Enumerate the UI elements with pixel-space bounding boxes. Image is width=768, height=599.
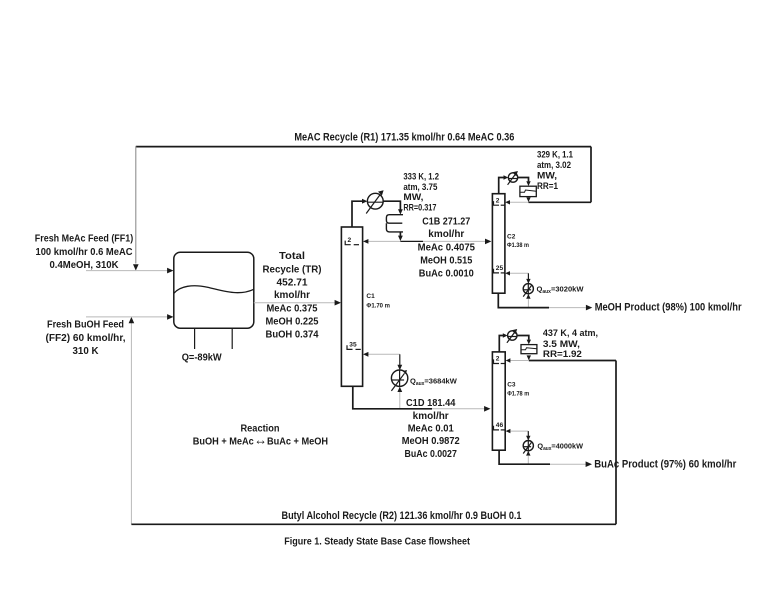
stream C2 bottoms light part [549,307,586,309]
svg-text:(FF2) 60 kmol/hr,: (FF2) 60 kmol/hr, [46,333,126,344]
svg-text:C1: C1 [366,293,375,300]
arrow C3 reflux into column [506,358,511,362]
C1 reboiler riser [399,354,401,366]
arrow FF1 into reactor [167,268,173,274]
stream R1 from C2 drum junction [529,201,592,203]
svg-text:2: 2 [496,197,500,204]
svg-text:BuAc Product (97%) 60 kmol/hr: BuAc Product (97%) 60 kmol/hr [594,459,736,471]
svg-text:MeOH Product (98%) 100 kmol/hr: MeOH Product (98%) 100 kmol/hr [595,302,742,314]
stream C3 bottoms dark part [499,450,550,464]
reactor left leg [194,328,196,349]
arrow into C1 reflux junction [398,236,403,241]
C1 vapor line [352,201,364,227]
reboiler C3 [523,441,533,454]
svg-text:Φ1.38 m: Φ1.38 m [507,242,529,249]
reboiler C2 [523,284,533,297]
stream FF2 fresh BuOH feed [86,316,169,318]
C1 reboiler return line [368,353,400,355]
svg-text:RR=1.92: RR=1.92 [543,349,582,359]
svg-text:kmol/hr: kmol/hr [428,229,464,240]
arrow C3 reboiler return into column [506,429,511,433]
reactor vessel [174,252,254,328]
svg-text:C3: C3 [507,382,516,389]
svg-text:310 K: 310 K [73,346,99,357]
svg-text:Φ1.70 m: Φ1.70 m [366,303,390,310]
C1 tray 35 marker [347,342,361,350]
svg-text:kmol/hr: kmol/hr [413,411,449,422]
svg-text:atm, 3.02: atm, 3.02 [537,160,571,170]
svg-text:Φ1.78 m: Φ1.78 m [507,390,529,397]
C1 drum outlet [399,232,401,236]
stream R1 top horizontal [136,146,591,148]
arrow C1B into C2 [485,239,491,245]
svg-text:0.4MeOH, 310K: 0.4MeOH, 310K [50,260,119,271]
svg-text:100 kmol/hr 0.6 MeAC: 100 kmol/hr 0.6 MeAC [36,247,133,258]
svg-text:Figure 1. Steady State Base Ca: Figure 1. Steady State Base Case flowshe… [284,537,470,548]
stream TR reactor outlet [254,302,337,304]
svg-text:MeOH 0.9872: MeOH 0.9872 [402,436,461,447]
arrow C2 reboiler return into column [505,271,510,275]
arrow C1 reboiler return into column [363,352,368,357]
stream C1 distillate dark part [400,240,423,242]
condenser C2 [508,171,518,185]
svg-text:MeOH 0.225: MeOH 0.225 [266,317,320,328]
stream C3 reflux [509,360,529,362]
C2 drum level line [520,190,536,192]
svg-text:333 K, 1.2: 333 K, 1.2 [403,171,439,181]
svg-text:Q=-89kW: Q=-89kW [182,352,223,363]
arrow R2 into FF2 junction [129,317,135,323]
svg-text:kmol/hr: kmol/hr [274,290,310,301]
svg-text:452.71: 452.71 [277,277,309,288]
C2 tray 25 marker [494,265,505,273]
arrow into C3 reflux junction [527,355,531,360]
svg-text:MeAc 0.375: MeAc 0.375 [267,303,319,314]
arrow into C2 reflux junction [526,197,530,202]
C1 reflux drum coil [386,215,403,232]
arrow into condenser C1 [362,199,367,204]
arrow BuAc product [586,461,592,467]
arrow into condenser C2 [504,175,509,179]
stream C1 bottoms dark part [353,386,432,409]
svg-text:2: 2 [348,237,352,244]
stream C2 reflux [509,201,529,203]
arrow into C1 reflux coil [398,209,403,214]
stream R2 bottom horizontal [131,523,616,525]
svg-text:BuOH 0.374: BuOH 0.374 [266,329,320,340]
C3 drum level line [521,348,537,350]
svg-text:MW,: MW, [537,170,557,180]
arrow into reboiler C1 [397,365,402,370]
svg-text:BuAc 0.0010: BuAc 0.0010 [419,268,475,279]
arrow into C3 reflux drum [527,340,531,345]
C2 reboiler downcomer [527,299,529,307]
reboiler C1 [391,370,407,391]
arrow up into reboiler C3 [526,451,530,456]
condenser C3 [507,329,517,343]
arrow TR into C1 [335,300,341,306]
svg-text:MeAc 0.01: MeAc 0.01 [408,423,455,434]
stream R1 right vertical [590,147,592,203]
arrow up into reboiler C1 from bottoms [397,387,402,392]
svg-text:Total: Total [279,251,305,262]
arrow C1 reflux into column [363,239,368,244]
C1 condenser outlet [383,201,400,210]
arrow C1D into C3 [484,406,490,412]
svg-text:329 K, 1.1: 329 K, 1.1 [537,150,573,160]
C3 vapor line [499,336,504,352]
C3 tray 2 marker [494,356,505,364]
stream R2 left vertical [130,323,132,525]
C1 reboiler downcomer [399,392,401,409]
svg-text:Recycle (TR): Recycle (TR) [263,264,322,275]
svg-text:Fresh MeAc Feed (FF1): Fresh MeAc Feed (FF1) [35,234,133,245]
stream R2 from C3 drum junction [529,360,616,362]
C1 tray 2 marker [345,237,359,245]
stream C3 bottoms light part [550,463,586,465]
svg-text:C2: C2 [507,233,516,240]
C2 reboiler riser [527,273,529,280]
svg-text:MeOH 0.515: MeOH 0.515 [420,255,473,266]
stream R2 right vertical [615,361,617,525]
arrow into condenser C3 [503,333,508,337]
arrow into reboiler C2 [526,279,530,284]
svg-text:RR=1: RR=1 [537,181,558,191]
svg-text:46: 46 [496,422,504,429]
svg-text:C1D 181.44: C1D 181.44 [406,398,456,409]
stream C1 distillate light part [423,240,487,242]
arrow FF2 into reactor [167,314,173,320]
arrow into C2 reflux drum [526,181,530,186]
column C3 [492,352,505,450]
C3 condenser outlet [517,336,529,340]
svg-text:Fresh BuOH Feed: Fresh BuOH Feed [47,320,124,331]
C2 tray 2 marker [494,197,505,205]
column C2 [492,194,505,294]
stream C1 reflux [368,240,401,242]
column C1 [341,227,362,386]
C2 reflux drum [520,186,536,196]
svg-text:BuAc 0.0027: BuAc 0.0027 [405,449,458,460]
svg-text:3.5 MW,: 3.5 MW, [543,339,580,349]
reactor right leg [231,328,233,349]
C3 reboiler riser [527,431,529,437]
C3 reboiler return line [509,430,528,432]
C2 reboiler return line [509,272,528,274]
condenser C1 [366,190,383,213]
svg-text:atm, 3.75: atm, 3.75 [403,182,437,192]
C2 vapor line [499,178,505,194]
stream FF1 fresh MeAc feed [86,270,169,272]
svg-text:MeAC Recycle (R1) 171.35 kmol/: MeAC Recycle (R1) 171.35 kmol/hr 0.64 Me… [294,131,514,143]
C3 reboiler downcomer [527,456,529,464]
stream R1 left vertical [135,146,137,263]
svg-text:MeAc 0.4075: MeAc 0.4075 [418,242,476,253]
stream C2 bottoms dark part [498,293,549,307]
reactor liquid level [174,286,254,293]
svg-text:RR=0.317: RR=0.317 [403,202,436,212]
svg-text:Butyl Alcohol Recycle (R2) 121: Butyl Alcohol Recycle (R2) 121.36 kmol/h… [282,510,522,522]
stream C1 bottoms light part [432,408,486,410]
svg-text:2: 2 [496,356,500,363]
C3 tray 46 marker [494,422,505,430]
svg-text:25: 25 [496,265,504,272]
arrow into reboiler C3 [526,436,530,441]
C2 condenser outlet [518,178,529,182]
C3 reflux drum [521,345,537,354]
svg-text:437 K, 4 atm,: 437 K, 4 atm, [543,328,598,338]
svg-text:35: 35 [349,342,357,349]
arrow C2 reflux into column [505,200,510,204]
svg-text:MW,: MW, [403,192,423,202]
arrow up into reboiler C2 [526,294,530,299]
svg-text:C1B 271.27: C1B 271.27 [422,216,470,227]
arrow R1 into FF1 junction [133,264,139,270]
arrow MeOH product [586,305,592,311]
